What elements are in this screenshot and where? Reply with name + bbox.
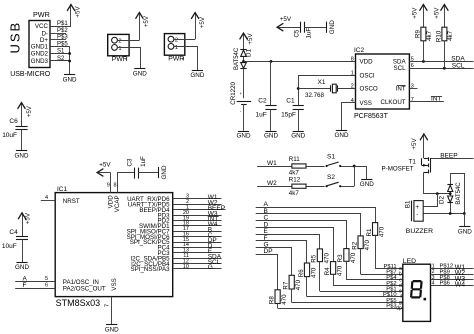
svg-text:+5V: +5V (280, 16, 292, 23)
USB pin P$1 (VCC) wire to +5V (50, 11, 71, 27)
ground at buzzer (458, 227, 472, 236)
ground at C3 (rotated) (159, 165, 169, 179)
svg-text:NRST: NRST (63, 198, 80, 205)
wire IC2 pin 3 stub (409, 88, 417, 90)
USB pin S1 wire (50, 49, 70, 55)
junction S1/S2 (353, 165, 356, 168)
svg-text:1uF: 1uF (140, 156, 147, 167)
svg-text:SCL: SCL (394, 65, 407, 72)
svg-text:4k7: 4k7 (426, 30, 433, 41)
wire R8 to LED pin line (277, 304, 279, 309)
svg-text:R5: R5 (311, 254, 318, 262)
svg-text:+5V: +5V (411, 138, 418, 150)
capacitor C2 1uF (256, 98, 277, 119)
resistor R4 470 (324, 262, 344, 277)
svg-text:4k7: 4k7 (447, 30, 454, 41)
svg-text:SCL: SCL (452, 62, 465, 69)
junction buzzer/drain (436, 192, 439, 195)
svg-text:R4: R4 (324, 267, 331, 275)
svg-text:2: 2 (175, 38, 178, 44)
svg-text:+5V: +5V (75, 6, 82, 18)
wire LED pin P$3 (segment dp) (278, 303, 403, 311)
wire IC2 OSCI to crystal node (299, 76, 356, 106)
svg-text:OSCO: OSCO (360, 86, 378, 93)
svg-text:PWR: PWR (168, 55, 184, 62)
svg-text:+5V: +5V (99, 161, 111, 168)
IC1 pin 12 I2C_SCL/PB4 / net SCL (131, 258, 221, 267)
wire IC2 VSS to ground (342, 103, 356, 131)
resistor R5 470 (311, 249, 331, 264)
IC1 pin 1 BEEP/PD4 / net BEEP (139, 205, 225, 214)
wire R11 to S1 (306, 166, 325, 168)
IC1 pin 20 PD3 / net W3 (158, 210, 222, 219)
svg-text:VCAP: VCAP (114, 195, 121, 212)
svg-text:R12: R12 (289, 176, 301, 183)
resistor R8 470 (268, 290, 288, 305)
wire net F to IC1 PA2/OSC_OUT pin 6 (15, 282, 55, 289)
resistor R7 470 (283, 275, 303, 290)
svg-text:P$6: P$6 (440, 281, 450, 287)
svg-text:STM8Sx03: STM8Sx03 (56, 298, 101, 308)
svg-text:BAT54C: BAT54C (234, 47, 240, 70)
wire S1 to junction (341, 166, 354, 168)
svg-text:5: 5 (411, 56, 414, 62)
+5V arrow at IC1 VDD (97, 169, 111, 176)
svg-text:10: 10 (183, 264, 189, 270)
svg-text:-: - (240, 109, 242, 114)
svg-text:P$3: P$3 (57, 35, 68, 41)
svg-text:OSCI: OSCI (360, 73, 375, 80)
display LED1 7-segment (403, 258, 431, 321)
wire LED pin P$8 to net W3 (431, 275, 474, 283)
transistor T1 P-MOSFET (382, 157, 431, 173)
wire battery to ground (243, 104, 245, 130)
svg-text:GND: GND (63, 76, 77, 83)
svg-text:5: 5 (45, 276, 48, 282)
svg-text:VSS: VSS (111, 278, 118, 290)
svg-text:VSS: VSS (360, 100, 372, 107)
wire C1 to ground (298, 109, 300, 131)
wire R6 to LED pin line (306, 277, 308, 297)
svg-text:P-MOSFET: P-MOSFET (382, 166, 414, 173)
IC1 pin 19 PD2 / net INT (158, 215, 222, 224)
svg-text:470: 470 (295, 279, 302, 290)
wire net D to resistor (256, 221, 334, 261)
svg-text:GND: GND (458, 228, 472, 235)
svg-text:IC2: IC2 (354, 47, 365, 54)
svg-text:3: 3 (411, 84, 414, 90)
wire net A to IC1 PA1/OSC_IN pin 5 (15, 276, 55, 283)
wire LED pin P$1 (segment e) (320, 287, 403, 295)
+5V arrow at D1 (240, 33, 247, 50)
wire net B to resistor (256, 208, 361, 236)
resistor R9 4k7 (414, 27, 433, 41)
IC1 pin 14 PC4 / net D (158, 242, 222, 251)
IC1 pin 15 SPI_SCK/PC5 / net DP (130, 237, 222, 246)
svg-text:T1: T1 (409, 159, 417, 166)
svg-text:32.768: 32.768 (305, 92, 324, 99)
svg-text:+5V: +5V (25, 212, 32, 224)
wire VDD rail to C2 (270, 61, 272, 105)
svg-text:BUZZER: BUZZER (406, 228, 433, 235)
capacitor C5 1uF (294, 22, 313, 39)
svg-text:8: 8 (351, 56, 354, 62)
junction S2 (68, 60, 71, 63)
buzzer B1 (405, 200, 433, 235)
svg-text:GND: GND (329, 20, 336, 34)
+5V arrow at R10 (441, 4, 448, 27)
wire net W1 to R11 (257, 160, 292, 167)
svg-text:1: 1 (118, 46, 121, 52)
svg-text:S1: S1 (57, 49, 65, 55)
wire X1 to IC2 OSCO (338, 88, 356, 90)
svg-text:R8: R8 (268, 296, 275, 304)
svg-text:C1: C1 (286, 98, 295, 105)
wire BEEP net to T1 gate (431, 158, 474, 160)
svg-text:DP: DP (264, 248, 273, 255)
svg-text:R10: R10 (435, 30, 442, 42)
svg-text:1uF: 1uF (256, 112, 267, 119)
ground under C1 (291, 132, 305, 140)
svg-text:C4: C4 (9, 229, 18, 236)
wire PWR1 pin1 to ground (117, 48, 140, 69)
svg-text:R3: R3 (337, 254, 344, 262)
wire R1 to LED pin line (375, 235, 377, 268)
resistor R2 470 (351, 236, 371, 251)
ground under USB (63, 75, 77, 84)
svg-text:+5V: +5V (247, 33, 254, 45)
svg-text:F: F (23, 282, 27, 289)
svg-text:GND: GND (105, 326, 119, 333)
svg-text:+5V: +5V (412, 7, 419, 19)
wire C5 to ground (304, 27, 326, 29)
wire R3 to LED pin line (346, 261, 348, 280)
ground at switches (360, 180, 374, 189)
svg-text:W2: W2 (267, 180, 277, 187)
wire INT net from IC2 pin 7 (409, 101, 443, 103)
svg-text:P$1: P$1 (57, 21, 68, 27)
wire IC1 VCAP pin 8 to C3 (118, 173, 135, 193)
wire LED pin P$6 to net W4 (431, 281, 474, 289)
ground under C2 (264, 132, 278, 140)
wire D2 top bypass (450, 174, 464, 214)
ground at C5 (rotated) (327, 20, 336, 34)
svg-text:S1: S1 (327, 154, 335, 161)
+5V arrow at C5 (277, 24, 301, 31)
ground under IC2 (335, 131, 349, 140)
wire R7 to LED pin line (291, 289, 293, 303)
wire R12 to S2 (306, 186, 325, 188)
junction crystal node (297, 87, 300, 90)
IC1 pin 10 SPI_NSS/PA3 / net G (131, 264, 222, 273)
capacitor C1 15pF (281, 98, 304, 119)
wire C4 to ground (22, 239, 24, 262)
svg-text:CR1220: CR1220 (230, 81, 237, 104)
wire to ground (464, 214, 466, 227)
svg-text:dp: dp (396, 306, 402, 312)
connector PWR (left 2-pin header) (108, 34, 129, 63)
svg-text:9: 9 (107, 183, 110, 189)
svg-text:P$3: P$3 (386, 303, 396, 309)
svg-text:GND: GND (190, 72, 204, 79)
svg-text:P$5: P$5 (57, 41, 68, 47)
svg-text:X1: X1 (318, 79, 326, 86)
wire net E to resistor (256, 228, 320, 249)
+5V arrow at PWR2 (192, 12, 199, 39)
ground under C6 (15, 151, 29, 160)
resistor R11 4k7 (289, 156, 306, 177)
svg-text:PA2/OSC_OUT: PA2/OSC_OUT (63, 285, 106, 292)
wire P$5/S1/S2 to ground (69, 46, 71, 74)
USB pin P$2 (D-) stub (50, 28, 68, 34)
wire net F to resistor (256, 235, 307, 263)
USB pin P$3 (D+) stub (50, 35, 68, 41)
IC U1 STM8Sx03 microcontroller (55, 186, 173, 308)
wire LED pin P$7 (segment b) (361, 270, 403, 278)
wire LED pin P$10 (segment f) (307, 292, 403, 300)
wire R10 to SCL (444, 41, 446, 68)
IC1 pin 17 SPI_MISO/PC7 / net B (127, 226, 222, 235)
wire R4 to LED pin line (333, 274, 335, 285)
svg-text:VCC: VCC (35, 23, 49, 30)
wire net DP to resistor (256, 248, 278, 290)
+5V arrow at T1 (420, 134, 427, 159)
svg-text:+5V: +5V (143, 15, 150, 27)
wire net G to resistor (256, 242, 292, 276)
svg-text:470: 470 (350, 252, 357, 263)
svg-text:W4: W4 (455, 281, 466, 288)
svg-text:GND3: GND3 (31, 58, 49, 65)
svg-text:B1: B1 (405, 200, 412, 208)
svg-text:470: 470 (323, 253, 330, 264)
wire LED pin P$12 to net W1 (431, 264, 474, 272)
svg-text:+: + (416, 205, 420, 211)
svg-text:USB-MICRO: USB-MICRO (10, 71, 51, 78)
svg-text:R2: R2 (351, 241, 358, 249)
svg-text:470: 470 (379, 226, 386, 237)
ground under IC1 (105, 325, 119, 334)
wire crystal node to X1 (298, 88, 331, 90)
svg-text:+: + (240, 91, 243, 96)
junction S1 (68, 52, 71, 55)
switch S2 (326, 174, 342, 187)
svg-text:+5V: +5V (26, 105, 33, 117)
wire PWR2 pin2 to +5V (174, 39, 195, 41)
svg-text:470: 470 (281, 294, 288, 305)
USB pin P$5 wire (50, 41, 70, 47)
crystal X1 32.768 (305, 79, 338, 99)
svg-text:C6: C6 (9, 118, 18, 125)
junction D1 / VDD rail (242, 60, 245, 63)
wire buzzer plus to drain node (423, 194, 437, 207)
svg-text:R7: R7 (283, 281, 290, 289)
svg-text:CLKOUT: CLKOUT (380, 99, 405, 106)
svg-text:10uF: 10uF (2, 243, 17, 250)
svg-text:2: 2 (118, 39, 121, 45)
IC1 pin 11 I2C_SDA/PB5 / net SDA (130, 253, 221, 262)
svg-text:4: 4 (432, 281, 435, 287)
connector PWR (right 2-pin header) (164, 34, 184, 63)
svg-text:INT: INT (396, 86, 406, 93)
svg-text:PCF8563T: PCF8563T (354, 113, 389, 120)
svg-text:15pF: 15pF (281, 112, 296, 119)
svg-text:6: 6 (411, 63, 414, 69)
svg-text:4: 4 (45, 195, 48, 201)
wire net A to resistor (256, 201, 376, 222)
svg-text:GND1: GND1 (31, 44, 49, 51)
wire R2 to LED pin line (360, 249, 362, 275)
svg-text:S2: S2 (57, 56, 65, 62)
ground under PWR1 (133, 69, 147, 78)
svg-text:G: G (208, 264, 213, 271)
svg-text:10uF: 10uF (2, 132, 17, 139)
USB pin S2 wire (50, 56, 70, 62)
+5V arrow at C4 (18, 213, 25, 236)
svg-text:USB: USB (8, 21, 23, 54)
svg-text:R9: R9 (414, 29, 421, 37)
junction D2 anode (449, 192, 452, 195)
net label INT (active low) (431, 96, 442, 103)
svg-text:SPI_NSS/PA3: SPI_NSS/PA3 (131, 266, 171, 273)
resistor R6 470 (298, 263, 318, 278)
wire junction to ground (354, 167, 366, 180)
svg-text:BAT54C: BAT54C (456, 182, 462, 205)
wire R5 to LED pin line (319, 262, 321, 292)
svg-text:R1: R1 (366, 228, 373, 236)
IC1 pin 2 UART_TX/PD5 / net W2 (128, 199, 222, 208)
svg-text:470: 470 (310, 267, 317, 278)
svg-text:R6: R6 (298, 269, 305, 277)
battery G1 CR1220 (230, 81, 251, 114)
diode D2 BAT54C (dual schottky) (439, 173, 463, 213)
wire IC1 NRST pin 4 (41, 200, 55, 202)
svg-text:PWR: PWR (33, 10, 50, 19)
svg-text:-: - (416, 212, 418, 218)
junction ground branch (463, 212, 466, 215)
svg-text:R11: R11 (289, 156, 300, 163)
connector X2 USB-MICRO (8, 10, 51, 78)
wire PWR1 pin2 to +5V (117, 40, 139, 42)
capacitor C4 10uF (2, 229, 28, 250)
wire switch junction (354, 166, 356, 186)
wire LED pin P$5 (segment g) (292, 298, 403, 306)
svg-text:D2: D2 (439, 195, 446, 203)
junction R9/SDA (422, 60, 425, 63)
svg-text:1: 1 (175, 45, 178, 51)
IC1 pin 16 SPI_MOSI/PC6 / net C (127, 231, 222, 240)
resistor R10 4k7 (435, 27, 454, 42)
svg-text:470: 470 (337, 265, 344, 276)
svg-text:GND2: GND2 (31, 51, 49, 58)
wire net W2 to R12 (257, 180, 292, 187)
svg-text:+5V: +5V (434, 7, 441, 19)
svg-text:PWR: PWR (112, 56, 128, 63)
7-segment digit 8 with decimal point (410, 280, 423, 299)
svg-text:GND: GND (360, 181, 374, 188)
wire net C to resistor (256, 215, 347, 249)
capacitor C6 10uF (2, 118, 27, 139)
svg-text:8: 8 (114, 183, 117, 189)
ground under PWR2 (190, 71, 204, 79)
wire R9 to SDA (423, 41, 425, 62)
svg-text:C5: C5 (294, 29, 301, 37)
svg-text:GND: GND (291, 133, 305, 140)
wire PWR2 pin1 to ground (174, 47, 198, 71)
wire +5V into IC1 VDD pin 9 (110, 173, 112, 193)
svg-text:GND: GND (133, 70, 147, 77)
svg-text:GND: GND (335, 132, 349, 139)
resistor R12 4k7 (289, 176, 306, 197)
junction C2 on VDD rail (270, 60, 273, 63)
wire S2 to junction (341, 186, 354, 188)
wire +5V/VDD rail from D1 to IC2 VDD (244, 61, 356, 63)
svg-text:GND: GND (15, 153, 29, 160)
wire LED pin P$2 (segment d) (333, 281, 403, 289)
wire C3 to ground (138, 172, 159, 174)
svg-text:P$2: P$2 (57, 28, 68, 34)
svg-text:+5V: +5V (199, 16, 206, 28)
svg-text:W1: W1 (267, 160, 277, 167)
svg-text:VDD: VDD (360, 59, 374, 66)
svg-text:4k7: 4k7 (289, 190, 300, 197)
diode D1 BAT54C (dual schottky) (234, 47, 252, 70)
IC U2 PCF8563T RTC (354, 47, 409, 120)
svg-text:1: 1 (351, 70, 354, 76)
svg-text:GND: GND (161, 165, 168, 179)
wire D1 to battery (243, 69, 245, 99)
wire T1 drain (424, 172, 451, 193)
junction R10/SCL (443, 67, 446, 70)
wire buzzer minus line (423, 213, 464, 215)
resistor R3 470 (337, 249, 357, 264)
IC1 pin 13 PC3 / net E (158, 248, 222, 257)
wire SCL net from IC2 pin 6 (409, 68, 473, 70)
svg-text:1uF: 1uF (305, 28, 312, 39)
IC1 pin 18 SWIM/PD1 / net W4 (139, 221, 222, 230)
svg-text:470: 470 (364, 240, 371, 251)
svg-text:7: 7 (411, 97, 414, 103)
+5V arrow at R9 (420, 4, 427, 27)
wire LED pin P$4 (segment c) (346, 275, 402, 283)
svg-text:4: 4 (351, 98, 354, 104)
wire C6 to ground (21, 129, 23, 150)
ground under battery (237, 132, 251, 140)
svg-text:C2: C2 (258, 98, 267, 105)
+5V arrow at PWR1 (136, 12, 143, 40)
svg-text:GND: GND (237, 133, 251, 140)
+5V arrow at USB P$1 (67, 4, 74, 11)
svg-text:GND: GND (15, 264, 29, 271)
svg-text:7: 7 (105, 304, 111, 307)
capacitor C3 1uF (127, 156, 147, 179)
IC1 pin 3 UART_RX/PD6 / net W1 (127, 194, 221, 203)
wire LED pin P$11 (segment a) (375, 264, 403, 272)
wire SDA net from IC2 pin 5 (409, 61, 473, 63)
svg-text:S2: S2 (327, 174, 335, 181)
+5V arrow at C6 (18, 102, 25, 126)
svg-text:GND: GND (264, 133, 278, 140)
svg-text:2: 2 (351, 84, 354, 90)
resistor R1 470 (366, 223, 386, 238)
junction D2 bottom (449, 212, 452, 215)
ground under C4 (15, 263, 29, 272)
wire C2 to ground (270, 109, 272, 131)
wire LED pin P$9 to net W2 (431, 269, 474, 277)
svg-text:6: 6 (45, 283, 48, 289)
svg-text:C3: C3 (127, 158, 134, 166)
wire IC1 VSS pin 7 to ground (105, 297, 112, 325)
switch S1 (326, 154, 342, 167)
